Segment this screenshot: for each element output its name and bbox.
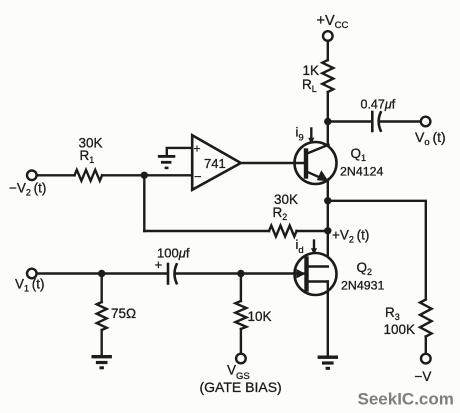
- wire node to R3: [328, 201, 426, 300]
- svg-text:741: 741: [204, 156, 226, 171]
- wire -V2 to R1: [37, 174, 75, 176]
- wire feedback vertical: [143, 175, 145, 231]
- terminal -V: [421, 354, 431, 364]
- svg-text:R2: R2: [273, 205, 288, 222]
- wire capacitor to Vo: [381, 120, 421, 122]
- svg-text:Q2: Q2: [357, 260, 373, 277]
- wire emitter down to Q2: [327, 180, 329, 267]
- node feedback junction: [141, 172, 148, 179]
- svg-text:Q1: Q1: [351, 146, 367, 163]
- terminal +Vcc: [323, 31, 333, 41]
- svg-text:R1: R1: [80, 148, 95, 165]
- terminal -V2(t): [27, 171, 37, 181]
- wire node to 10K: [240, 274, 242, 302]
- resistor 10K: [235, 301, 246, 329]
- node collector/cap junction: [324, 118, 331, 125]
- svg-text:+V2 (t): +V2 (t): [332, 228, 369, 245]
- svg-text:+: +: [194, 142, 201, 156]
- wire feedback to R2: [144, 230, 269, 232]
- svg-text:Vo (t): Vo (t): [415, 129, 446, 148]
- svg-text:i9: i9: [296, 125, 304, 144]
- svg-text:SeekIC.com: SeekIC.com: [358, 390, 454, 409]
- terminal Vo(t): [421, 117, 431, 127]
- svg-text:+VCC: +VCC: [317, 13, 349, 31]
- ground (75ohm): [92, 355, 112, 369]
- svg-text:−V: −V: [415, 369, 432, 384]
- svg-text:id: id: [296, 237, 304, 256]
- svg-text:1K: 1K: [303, 63, 320, 78]
- wire R2 to node: [297, 230, 328, 232]
- op-amp U1 741: [192, 135, 241, 190]
- svg-text:75Ω: 75Ω: [111, 306, 136, 321]
- transistor Q1: [295, 142, 337, 184]
- resistor 75ohm: [97, 302, 107, 330]
- wire node to 75ohm: [100, 274, 102, 303]
- svg-text:(GATE BIAS): (GATE BIAS): [200, 379, 282, 395]
- capacitor C2 100uf: [168, 264, 177, 284]
- node emitter/R3 branch: [324, 197, 331, 204]
- terminal VGS: [236, 354, 246, 364]
- wire R1 to op-amp: [102, 174, 192, 176]
- svg-text:2N4931: 2N4931: [341, 278, 385, 292]
- wire Vcc to RL: [327, 41, 329, 60]
- terminal V1(t): [27, 269, 37, 279]
- svg-text:2N4124: 2N4124: [340, 164, 384, 178]
- svg-text:−V2 (t): −V2 (t): [9, 181, 46, 198]
- wire op-amp output to Q1 base: [241, 162, 304, 164]
- resistor R2: [269, 226, 297, 237]
- svg-text:0.47μf: 0.47μf: [361, 98, 396, 112]
- svg-text:R3: R3: [385, 305, 400, 322]
- ground (Q2 source): [318, 356, 338, 370]
- svg-text:−: −: [194, 169, 202, 184]
- wire capacitor to Q2 gate: [176, 272, 304, 274]
- wire collector: [327, 122, 329, 147]
- wire V1 to capacitor: [37, 272, 168, 274]
- svg-text:100K: 100K: [384, 322, 416, 337]
- wire 75ohm to ground: [100, 330, 102, 355]
- current arrow id: [311, 241, 317, 255]
- wire node to capacitor: [328, 120, 372, 122]
- resistor R3: [420, 300, 432, 337]
- svg-text:V1 (t): V1 (t): [15, 277, 44, 294]
- wire op-amp + input to ground: [167, 148, 192, 155]
- resistor R1: [75, 170, 103, 181]
- wire R3 to -V: [425, 337, 427, 354]
- resistor RL: [322, 60, 333, 92]
- wire Q2 source down: [327, 282, 329, 356]
- current arrow i9: [308, 129, 314, 145]
- capacitor C1 0.47uf: [372, 112, 380, 131]
- wire 10K to VGS: [240, 329, 242, 354]
- svg-text:10K: 10K: [248, 309, 272, 324]
- svg-text:100μf: 100μf: [157, 246, 190, 261]
- svg-text:RL: RL: [302, 77, 317, 94]
- node 10K junction: [237, 270, 244, 277]
- node +V2(t): [324, 227, 331, 234]
- wire RL to node: [327, 92, 329, 122]
- ground (op-amp): [158, 155, 175, 169]
- transistor Q2: [295, 253, 337, 295]
- node 75ohm junction: [98, 270, 105, 277]
